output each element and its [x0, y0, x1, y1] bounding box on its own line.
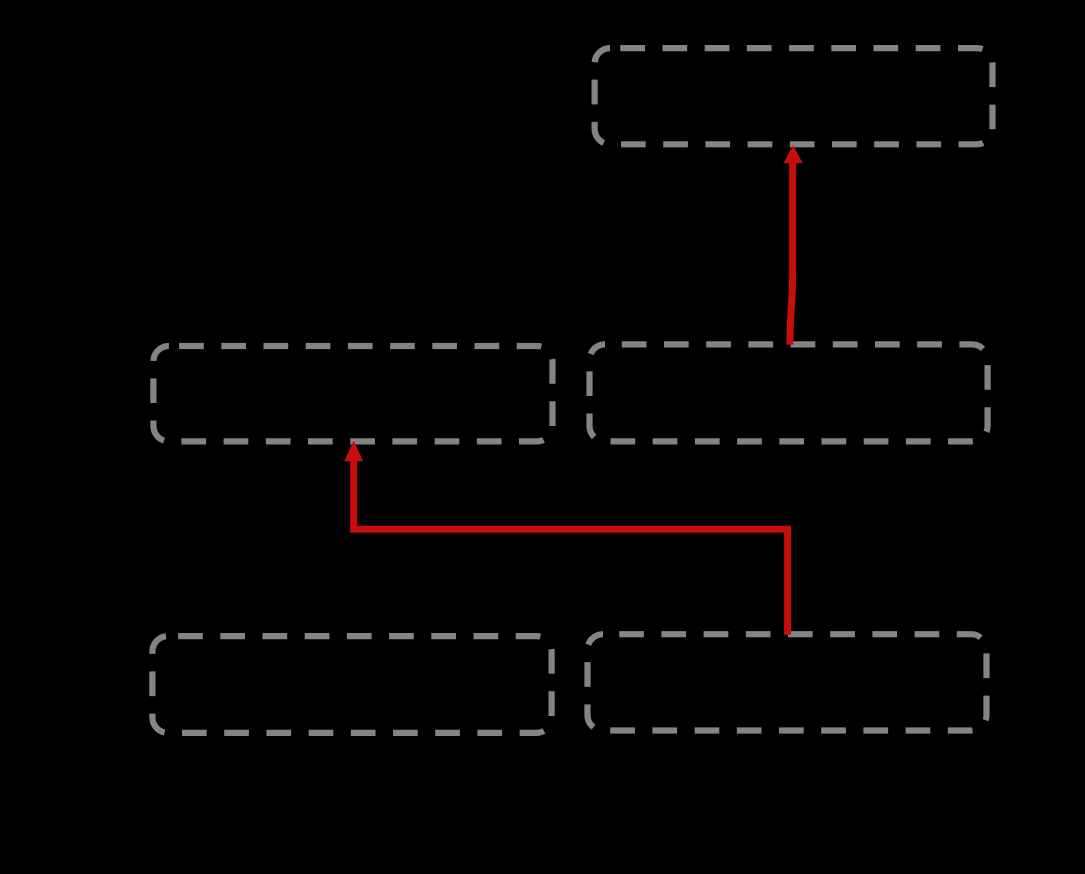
arrow A1 shaft (B3 top to B1 bottom, red vertical line) — [790, 162, 793, 345]
box B2 (middle left, dashed rounded rect) — [153, 346, 552, 441]
box B1 (top right, dashed rounded rect) — [595, 48, 993, 144]
box B3 (middle right, dashed rounded rect) — [590, 344, 988, 441]
arrow A2 shaft (B5 top, up, left, up to B2 bottom, red elbow line) — [354, 460, 788, 635]
arrow A1 head (points up at B1 bottom edge) — [784, 145, 803, 163]
box B5 (bottom right, dashed rounded rect) — [588, 634, 987, 730]
arrow A2 head (points up at B2 bottom edge) — [344, 441, 363, 462]
box B4 (bottom left, dashed rounded rect) — [152, 636, 551, 733]
